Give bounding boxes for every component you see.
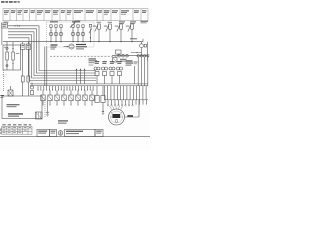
logo symbol <box>58 131 63 136</box>
comb dots <box>38 89 94 92</box>
main bus <box>3 41 143 43</box>
label lv panel <box>51 44 58 49</box>
bus end tick <box>142 39 144 42</box>
wire pair mid drop <box>45 47 47 86</box>
node <box>12 63 13 64</box>
label <box>4 47 19 54</box>
wire <box>6 60 8 70</box>
main lower bus B <box>30 85 148 87</box>
label mid right <box>89 58 98 65</box>
relay unit K2 <box>102 61 108 84</box>
heater H1 <box>36 112 43 119</box>
label <box>0 95 4 98</box>
source box <box>2 23 8 28</box>
relay box below wire <box>113 58 118 62</box>
CT T2 phase a <box>71 25 75 42</box>
panel boundary dash line <box>50 55 118 57</box>
legend table <box>3 9 148 21</box>
wire <box>12 60 14 70</box>
arrow to meter <box>64 46 69 47</box>
fuse F1 <box>21 49 24 96</box>
title block box D <box>95 129 103 136</box>
note block <box>126 60 134 65</box>
bottom rule <box>0 136 150 138</box>
CT T1 phase a <box>49 25 53 42</box>
relay unit K4 <box>117 61 123 84</box>
relay K0 <box>8 86 13 96</box>
gauge wire <box>125 100 140 117</box>
node <box>137 52 138 53</box>
CT T1 phase c <box>59 25 63 42</box>
control cubicle box <box>3 45 21 70</box>
terminal comb left <box>38 86 93 91</box>
gauge label <box>127 115 133 117</box>
title block box A <box>37 129 50 136</box>
crossing lugs <box>137 55 149 57</box>
dashed neutral wire <box>3 70 5 92</box>
fuse FA2 <box>48 90 52 104</box>
table cell text <box>3 127 32 133</box>
main lower bus A <box>30 83 148 85</box>
feeder Q2 <box>93 22 101 42</box>
relay unit K3 <box>109 61 115 84</box>
label below table left <box>4 21 9 24</box>
metering wire <box>112 55 148 57</box>
fuse FA4 <box>62 90 66 104</box>
transformer bay dashed box <box>47 22 95 47</box>
kWh meter <box>69 44 74 49</box>
wire right comb long drops <box>105 86 147 100</box>
wire far right <box>147 42 149 61</box>
wire bus L2 <box>8 29 96 73</box>
CT group T1 label <box>50 21 58 22</box>
CT group T2 label <box>72 21 80 22</box>
legend table cell text <box>4 10 147 14</box>
wire right drops <box>138 57 148 86</box>
annotation arrow <box>70 20 81 27</box>
title block box B <box>50 129 57 136</box>
meter box 72 <box>26 42 30 50</box>
note text <box>58 120 68 123</box>
earth drop <box>46 101 49 117</box>
node <box>6 47 8 49</box>
wire bus L5 <box>8 38 96 81</box>
dashed marks <box>2 74 7 78</box>
aux supply box <box>116 50 122 56</box>
gauge G1 <box>109 109 125 125</box>
aux contact <box>30 82 33 94</box>
fuse FA3 <box>55 90 59 104</box>
relay unit K5 <box>134 62 138 84</box>
junction tick <box>17 25 18 27</box>
CT lug row <box>118 54 129 57</box>
wire to metering <box>131 53 142 57</box>
fuse FA5 <box>69 90 73 104</box>
terminal cabinet box <box>2 96 42 119</box>
resistor R2 <box>12 52 15 60</box>
fuse FA1 <box>41 90 45 104</box>
CT T2 phase b <box>76 25 80 42</box>
meter label <box>76 44 87 50</box>
relay unit K1 <box>94 61 100 84</box>
terminal list table <box>2 126 33 134</box>
fuse FA8 <box>90 90 94 104</box>
dashed wire <box>44 98 46 118</box>
fuse feet <box>42 104 93 106</box>
metering label <box>120 59 127 62</box>
bus2 comb with lugs <box>107 100 146 106</box>
title text <box>1 1 20 3</box>
lamp L1 <box>6 65 8 67</box>
side note <box>0 129 2 135</box>
breaker box left of gauge <box>95 86 105 115</box>
disconnect switch Q1 <box>89 24 92 42</box>
wire bus L3 <box>8 32 96 76</box>
fuse FA7 <box>83 90 87 104</box>
cabinet label <box>7 104 20 107</box>
bus end label <box>130 38 137 39</box>
resistor R1 <box>6 52 9 60</box>
feeder Q4 <box>115 21 125 42</box>
wire drop A <box>6 42 8 52</box>
wire drop B <box>12 42 14 52</box>
feeder Q5 <box>126 21 136 42</box>
fuse F2 <box>27 49 30 96</box>
wire left edge down <box>1 28 3 45</box>
riser arrows <box>76 69 86 84</box>
node <box>12 48 13 49</box>
node J1 <box>14 25 20 26</box>
motor M1 <box>140 42 147 53</box>
title block box C <box>65 129 96 136</box>
CT T1 phase b <box>54 25 58 42</box>
gauge fan wires <box>110 106 123 111</box>
wire bus L4 <box>8 35 96 78</box>
terminal bus 2 <box>104 99 148 101</box>
feeder Q3 <box>104 22 112 42</box>
CT T2 phase c <box>81 25 85 42</box>
fuse FA6 <box>76 90 80 104</box>
meter box 71 <box>21 42 25 50</box>
table header text <box>2 123 31 126</box>
wire bus L1 <box>8 26 97 71</box>
label top right <box>141 21 149 24</box>
